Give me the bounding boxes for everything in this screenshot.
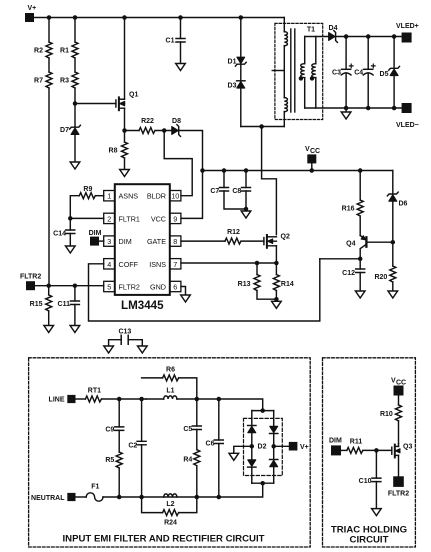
- resistor R3: [60, 72, 78, 88]
- diode D1 (zener, cathode down): [228, 57, 247, 66]
- node VCC rail junctions: [200, 168, 362, 173]
- svg-text:1: 1: [107, 192, 111, 201]
- wire primary bottom rail: [241, 126, 284, 128]
- svg-text:R22: R22: [141, 118, 154, 125]
- terminal NEUTRAL: [31, 493, 86, 502]
- diode D3: [228, 81, 245, 90]
- capacitor C13 (inter-ground): [109, 329, 143, 347]
- resistor R16: [342, 171, 364, 236]
- ground (C11): [70, 326, 80, 333]
- node C9 junction: [117, 397, 122, 402]
- svg-text:DIM: DIM: [119, 237, 132, 246]
- node bridge bottom junction: [252, 481, 274, 486]
- node C7/C8 ground junction: [244, 207, 249, 212]
- svg-text:R5: R5: [105, 457, 114, 464]
- resistor R10: [380, 396, 402, 444]
- diode D5 (zener): [380, 37, 400, 109]
- terminal VCC (triac box): [391, 378, 406, 396]
- wire R1-R3: [74, 58, 76, 72]
- capacitor C4: [354, 37, 375, 109]
- capacitor C7: [210, 171, 246, 210]
- ground (D7): [70, 162, 80, 169]
- capacitor C12: [342, 259, 365, 291]
- ground (C7/C8): [241, 211, 251, 218]
- capacitor C5: [183, 399, 201, 450]
- wire Q2 source to ISNS row: [275, 246, 277, 263]
- fuse F1: [86, 484, 103, 502]
- svg-text:5: 5: [107, 283, 111, 292]
- svg-text:D8: D8: [172, 118, 181, 125]
- pin 5 FLTR2: [104, 281, 140, 291]
- node FLTR2 junctions: [46, 283, 77, 288]
- svg-text:R15: R15: [30, 301, 43, 308]
- capacitor C14: [53, 218, 75, 246]
- node Q1-source / R8 / R22 junction: [122, 128, 139, 133]
- node output top junctions: [344, 34, 397, 39]
- svg-text:COFF: COFF: [119, 260, 139, 269]
- pin 3 DIM: [104, 236, 132, 246]
- svg-text:Q4: Q4: [346, 241, 355, 248]
- svg-text:R9: R9: [83, 186, 92, 193]
- resistor R8: [109, 131, 128, 170]
- capacitor C1: [166, 18, 185, 64]
- capacitor C11: [58, 286, 80, 326]
- svg-text:C2: C2: [128, 443, 137, 450]
- wire Q1 source down: [124, 108, 126, 130]
- transformer T1 secondary windings: [299, 37, 316, 109]
- svg-text:Q2: Q2: [281, 234, 290, 241]
- svg-text:L1: L1: [166, 388, 174, 395]
- ground (C13 right): [138, 346, 148, 353]
- svg-text:Q1: Q1: [129, 92, 138, 99]
- wire Q1 drain to top rail: [124, 18, 126, 100]
- svg-text:R13: R13: [238, 281, 251, 288]
- diode D6 (zener): [387, 171, 407, 243]
- ground (C12): [355, 291, 365, 298]
- svg-text:C8: C8: [232, 188, 241, 195]
- resistor R11: [347, 439, 392, 454]
- capacitor C2: [128, 441, 146, 497]
- resistor R22: [139, 118, 155, 134]
- node FLTR1/C14 junction: [68, 216, 104, 221]
- capacitor C3: [332, 37, 353, 109]
- svg-text:LINE: LINE: [49, 397, 65, 404]
- svg-text:R11: R11: [350, 439, 363, 446]
- diode D4: [329, 25, 338, 42]
- svg-text:GND: GND: [150, 283, 166, 292]
- svg-text:FLTR2: FLTR2: [119, 283, 140, 292]
- svg-text:CC: CC: [310, 148, 320, 155]
- svg-text:NEUTRAL: NEUTRAL: [31, 495, 65, 502]
- svg-text:GATE: GATE: [147, 237, 166, 246]
- wire VCC rail: [203, 170, 393, 172]
- svg-text:D2: D2: [258, 444, 267, 451]
- terminal LINE: [49, 395, 86, 404]
- wire pin 7 ISNS to R13/R14: [181, 262, 276, 264]
- svg-text:R1: R1: [60, 48, 69, 55]
- wire BLDR path to pin 10: [164, 131, 192, 196]
- wire R2 branch: [48, 18, 50, 43]
- resistor R24: [163, 510, 179, 527]
- wire secondary top rail: [305, 36, 329, 38]
- wire primary center tap stub: [272, 70, 284, 72]
- node C5 junction: [195, 397, 200, 402]
- svg-text:D6: D6: [399, 201, 408, 208]
- terminal V+ (bridge output): [289, 442, 309, 451]
- wire top rail: [34, 17, 284, 19]
- svg-text:R14: R14: [281, 281, 294, 288]
- EMI filter dashed box: [29, 358, 311, 547]
- transformer T1 dashed module box: [275, 23, 323, 119]
- diode D2a (top-left): [248, 426, 256, 433]
- svg-text:R16: R16: [342, 206, 355, 213]
- wire line rail to bridge top: [219, 399, 263, 411]
- svg-text:2: 2: [107, 214, 111, 223]
- diode D2c (bottom-left): [248, 460, 256, 467]
- ground (C10): [372, 509, 382, 516]
- svg-text:VLED+: VLED+: [396, 23, 419, 30]
- wire D4 cathode to VLED+: [336, 36, 402, 38]
- svg-text:8: 8: [173, 237, 177, 246]
- svg-text:D1: D1: [228, 59, 237, 66]
- pin 7 ISNS: [149, 259, 181, 269]
- resistor R4: [183, 450, 199, 497]
- transformer T1 primary winding: [284, 18, 287, 127]
- ground (C13 left): [104, 346, 114, 353]
- svg-text:D5: D5: [380, 71, 389, 78]
- node R3/D7/Q1-gate junction: [73, 88, 116, 127]
- svg-text:T1: T1: [307, 27, 315, 34]
- wire R7 down to FLTR2 node: [48, 88, 50, 286]
- wire Q3 source to FLTR2: [398, 455, 400, 476]
- terminal DIM (pin 3): [89, 230, 104, 246]
- wire pin 6 GND: [181, 287, 186, 296]
- svg-text:FLTR2: FLTR2: [20, 274, 41, 281]
- pin 2 FLTR1: [104, 213, 140, 223]
- svg-text:C13: C13: [118, 329, 131, 336]
- svg-text:10: 10: [171, 192, 179, 201]
- inductor L1: [146, 388, 219, 399]
- svg-text:C9: C9: [105, 427, 114, 434]
- wire neutral rail: [103, 483, 263, 497]
- terminal VLED+: [396, 23, 419, 43]
- svg-text:R3: R3: [60, 78, 69, 85]
- terminal FLTR2 (triac box): [388, 476, 409, 497]
- capacitor C8: [232, 171, 250, 210]
- svg-text:6: 6: [173, 283, 177, 292]
- inductor L2: [164, 494, 177, 508]
- svg-text:C1: C1: [166, 38, 175, 45]
- transistor Q3 (N-MOSFET): [392, 444, 413, 458]
- svg-text:Q3: Q3: [403, 444, 412, 451]
- terminal DIM (triac box): [329, 438, 347, 456]
- resistor R1: [60, 42, 78, 58]
- svg-text:7: 7: [173, 260, 177, 269]
- resistor R7: [34, 72, 52, 88]
- wire pin1 to R9: [96, 195, 104, 197]
- ground (C14): [66, 246, 76, 253]
- wire bridge left column: [251, 411, 253, 484]
- svg-text:3: 3: [107, 237, 111, 246]
- svg-text:C7: C7: [210, 188, 219, 195]
- ground (R13/R14): [272, 301, 282, 308]
- resistor R13: [238, 263, 277, 299]
- svg-text:C3: C3: [332, 70, 341, 77]
- svg-text:VLED−: VLED−: [396, 122, 419, 129]
- ground (output): [341, 108, 351, 119]
- resistor R2: [34, 42, 52, 58]
- resistor R20: [374, 242, 395, 291]
- node Q4 collector / C12 junction: [320, 257, 363, 262]
- node ISNS junctions: [255, 261, 279, 266]
- wire D8 cathode to VCC rail: [179, 131, 203, 171]
- svg-text:9: 9: [173, 214, 177, 223]
- node bridge plus output: [271, 444, 288, 449]
- svg-text:V+: V+: [300, 444, 309, 451]
- svg-text:FLTR1: FLTR1: [119, 214, 140, 223]
- svg-text:LM3445: LM3445: [121, 299, 164, 312]
- pin 1 ASNS: [104, 191, 139, 201]
- diode D2b (top-right): [270, 426, 278, 433]
- svg-text:R4: R4: [183, 457, 192, 464]
- node C2/R6 branch junction: [139, 397, 144, 402]
- transistor Q4 (PNP): [346, 236, 393, 259]
- svg-text:R6: R6: [166, 367, 175, 374]
- wire R1 branch: [74, 18, 76, 43]
- resistor R6: [163, 367, 179, 381]
- op-amp U1 LM3445 IC body: [115, 184, 170, 312]
- resistor R9: [79, 186, 95, 199]
- wire D3 down to bridge bottom rail: [240, 88, 242, 126]
- svg-text:R12: R12: [227, 229, 240, 236]
- svg-text:DIM: DIM: [329, 438, 342, 445]
- node bridge top junction: [252, 408, 274, 413]
- ground (R15): [44, 326, 54, 333]
- svg-text:L2: L2: [166, 501, 174, 508]
- capacitor C9: [105, 399, 123, 452]
- wire Q3 drain: [398, 444, 400, 447]
- svg-text:D4: D4: [329, 25, 338, 32]
- pin 6 GND: [150, 281, 181, 291]
- ground (R20): [388, 291, 398, 298]
- node C6 junction top: [217, 397, 222, 402]
- wire R6 parallel branch: [142, 378, 197, 399]
- resistor R14: [273, 263, 293, 299]
- wire RT1 to L1 branch: [102, 398, 146, 400]
- wire R24 parallel branch: [142, 497, 197, 513]
- pin 10 BLDR: [147, 191, 181, 201]
- svg-text:FLTR2: FLTR2: [388, 491, 409, 498]
- wire D1-D3: [240, 64, 242, 81]
- diode D8: [172, 118, 181, 136]
- svg-text:ISNS: ISNS: [149, 260, 166, 269]
- svg-text:R10: R10: [380, 411, 393, 418]
- svg-text:VCC: VCC: [151, 214, 166, 223]
- node primary bottom / Q2 drain branch: [259, 124, 264, 129]
- ground (C1): [176, 64, 186, 71]
- svg-text:ASNS: ASNS: [119, 192, 139, 201]
- wire C2 vertical: [141, 399, 143, 441]
- node R13/R14 ground junction: [274, 297, 279, 302]
- svg-text:F1: F1: [91, 484, 99, 491]
- svg-text:D7: D7: [60, 127, 69, 134]
- resistor R12: [181, 229, 264, 244]
- wire FLTR2 row to pin 5: [35, 285, 104, 287]
- svg-text:CC: CC: [396, 380, 406, 387]
- transistor Q2 (N-MOSFET): [264, 234, 290, 248]
- capacitor C6: [206, 399, 224, 497]
- wire COFF loop (pin 4 to Q4 collector node): [89, 259, 320, 321]
- pin 8 GATE: [147, 236, 181, 246]
- svg-text:C14: C14: [53, 231, 66, 238]
- svg-text:RT1: RT1: [88, 388, 101, 395]
- terminal V+ (top left): [25, 5, 36, 22]
- diode D7 (zener): [60, 125, 80, 134]
- node R22/D8/BLDR junction: [155, 128, 171, 133]
- node neutral junctions: [117, 495, 221, 500]
- svg-text:C11: C11: [58, 301, 71, 308]
- svg-text:BLDR: BLDR: [147, 192, 166, 201]
- svg-text:4: 4: [107, 260, 111, 269]
- svg-text:CIRCUIT: CIRCUIT: [350, 534, 389, 545]
- svg-text:INPUT EMI FILTER AND RECTIFIER: INPUT EMI FILTER AND RECTIFIER CIRCUIT: [63, 534, 265, 545]
- wire D7 to ground: [74, 135, 76, 162]
- wire clamp branch down from top rail: [240, 18, 242, 58]
- svg-text:R20: R20: [374, 274, 387, 281]
- wire secondary bottom rail: [305, 107, 402, 109]
- ground (bridge): [229, 453, 239, 460]
- svg-text:D3: D3: [228, 83, 237, 90]
- wire pin 9 to VCC rail: [181, 171, 203, 219]
- svg-text:R7: R7: [34, 78, 43, 85]
- terminal FLTR2 (left): [20, 274, 41, 291]
- terminal VCC: [305, 146, 320, 171]
- node bridge minus output: [234, 444, 254, 453]
- ground (pin 6): [181, 295, 191, 302]
- resistor R5: [105, 452, 122, 497]
- svg-text:V+: V+: [28, 5, 37, 12]
- transformer T1 core: [291, 29, 295, 112]
- svg-text:C12: C12: [342, 270, 355, 277]
- svg-text:C5: C5: [183, 426, 192, 433]
- resistor RT1: [85, 388, 101, 403]
- transistor Q1 (N-MOSFET): [116, 92, 139, 111]
- wire bridge right column: [273, 411, 275, 484]
- resistor R15: [30, 286, 52, 326]
- node Q4 base / D6 / R20 junction: [391, 240, 396, 245]
- pin 4 COFF: [104, 259, 139, 269]
- svg-text:R24: R24: [164, 520, 177, 527]
- node output bottom junctions: [344, 106, 397, 111]
- svg-text:DIM: DIM: [89, 230, 102, 237]
- diode D2d (bottom-right): [270, 460, 278, 467]
- wire Q2 drain path (jog): [262, 127, 277, 235]
- svg-text:C4: C4: [354, 70, 363, 77]
- TRIAC holding dashed box: [323, 358, 416, 547]
- bridge D2 dashed box: [244, 418, 283, 475]
- node R11/C10/gate junction: [374, 448, 379, 453]
- capacitor C10: [359, 450, 381, 508]
- ground (R8): [120, 170, 130, 177]
- wire R9 corner down to FLTR1 node: [70, 196, 79, 219]
- wire R2-R7: [48, 58, 50, 72]
- node top rail junctions: [47, 15, 243, 20]
- terminal VLED-: [396, 103, 419, 129]
- svg-text:R8: R8: [109, 148, 118, 155]
- svg-text:R2: R2: [34, 48, 43, 55]
- svg-text:C10: C10: [359, 478, 372, 485]
- pin 9 VCC: [151, 213, 181, 223]
- svg-text:C6: C6: [206, 441, 215, 448]
